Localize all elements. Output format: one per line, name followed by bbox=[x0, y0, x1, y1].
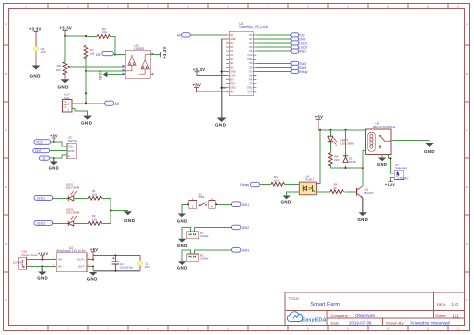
wire (common to GND) bbox=[111, 210, 128, 212]
svg-text:220: 220 bbox=[92, 217, 97, 221]
power flag +5V (relay section) bbox=[315, 115, 323, 120]
wire (S2 pin to SW2 port) bbox=[195, 227, 232, 231]
wire (U1 D6) bbox=[256, 66, 291, 68]
svg-text:Soil: Soil bbox=[64, 96, 69, 100]
net port SW3 bbox=[232, 248, 250, 253]
net label DHT (U1) bbox=[291, 37, 306, 42]
resistor R2 220 bbox=[88, 214, 101, 225]
wire (D8 oval stub) bbox=[114, 54, 115, 56]
resistor R7 10k (vertical) bbox=[84, 45, 95, 58]
svg-text:120: 120 bbox=[274, 179, 279, 183]
node (LED common) bbox=[110, 210, 112, 212]
svg-text:Solenoid: Solenoid bbox=[395, 166, 407, 170]
wire (LED1 to R1) bbox=[74, 197, 89, 199]
net port LED2 bbox=[34, 220, 53, 225]
ground (U2, rotated left) bbox=[98, 71, 108, 80]
svg-text:Power Input: Power Input bbox=[22, 253, 38, 257]
svg-text:3.3V: 3.3V bbox=[230, 74, 235, 77]
svg-text:1/1: 1/1 bbox=[453, 313, 460, 318]
svg-text:GND: GND bbox=[177, 265, 188, 270]
svg-text:104: 104 bbox=[145, 265, 150, 269]
wire (U1 D3) bbox=[256, 46, 291, 48]
wire (LED3 to R8) bbox=[329, 142, 331, 153]
load U7 Solenoid bbox=[394, 163, 409, 180]
svg-text:12VDC: 12VDC bbox=[398, 176, 409, 180]
svg-text:C: C bbox=[466, 128, 468, 132]
node (gnd tap) bbox=[41, 265, 43, 267]
frame ticks bottom bbox=[48, 326, 448, 331]
svg-text:OUT-: OUT- bbox=[78, 265, 85, 269]
svg-text:DHT: DHT bbox=[35, 149, 42, 153]
wire (U1 D0) bbox=[256, 34, 291, 36]
diode D1 4148 (vertical) bbox=[343, 156, 356, 164]
wire (LED2 to R2) bbox=[74, 222, 89, 224]
svg-text:GND: GND bbox=[177, 243, 188, 248]
svg-text:+5V: +5V bbox=[50, 134, 58, 138]
svg-text:SW1: SW1 bbox=[242, 203, 249, 207]
wire (U16 pin1 to U3 IN+) bbox=[27, 259, 57, 261]
svg-text:OUT+: OUT+ bbox=[77, 258, 85, 262]
svg-text:SC: SC bbox=[230, 58, 234, 61]
svg-text:Drawn By:: Drawn By: bbox=[386, 320, 404, 325]
svg-text:GND: GND bbox=[377, 162, 387, 167]
svg-text:+3.3V: +3.3V bbox=[162, 46, 167, 59]
wire (relay coil- to Q1 collector) bbox=[363, 150, 366, 168]
svg-text:A: A bbox=[466, 22, 468, 26]
svg-text:LM393: LM393 bbox=[134, 47, 144, 51]
svg-text:RELAYSONGLE: RELAYSONGLE bbox=[373, 125, 395, 129]
wire (+5V to U1 Vin) bbox=[197, 88, 227, 92]
node (gnd bus pin14) bbox=[221, 87, 223, 89]
svg-text:3.3V: 3.3V bbox=[247, 54, 252, 57]
wire (U17 pin2 to A0) bbox=[72, 102, 105, 104]
svg-text:RST: RST bbox=[230, 83, 235, 86]
relay U6 RELAYSONGLE bbox=[366, 122, 396, 155]
svg-text:GND: GND bbox=[247, 58, 253, 61]
power flag +5V (U3) bbox=[90, 247, 98, 252]
wire (R5 bottom to GND) bbox=[64, 74, 66, 79]
wire (U4 pin2 to GND) bbox=[287, 192, 300, 196]
svg-text:1k: 1k bbox=[334, 186, 338, 190]
node (+12V tap) bbox=[41, 259, 43, 261]
svg-text:+3.3V: +3.3V bbox=[193, 67, 206, 72]
power flag +3.3V (C9 branch) bbox=[29, 27, 42, 32]
svg-text:A0: A0 bbox=[115, 102, 119, 106]
wire (GND pin10 stub) bbox=[222, 71, 226, 73]
power flag +3.3V (comparator section) bbox=[60, 26, 73, 31]
net port DHT bbox=[33, 148, 50, 153]
svg-text:E: E bbox=[466, 242, 468, 246]
node (D1 bottom) bbox=[345, 167, 347, 169]
node (A0 row) bbox=[85, 102, 87, 104]
ground (relay contact) bbox=[424, 143, 435, 154]
wire (+5V to OUT+ and rail) bbox=[93, 252, 140, 262]
wire (U4 pin4 to +5V rail) bbox=[316, 130, 320, 184]
svg-text:+5V: +5V bbox=[90, 247, 98, 252]
node (C2 top) bbox=[114, 254, 116, 256]
wire (gnd rail bottom) bbox=[93, 266, 140, 270]
switch S2 CHSW bbox=[187, 231, 209, 239]
node (R5 wiper) bbox=[68, 66, 70, 68]
wire (power, +3.3V to C9) bbox=[35, 32, 37, 47]
svg-text:GND: GND bbox=[281, 199, 292, 204]
svg-text:+5V: +5V bbox=[315, 115, 323, 120]
node (gnd bus pin10) bbox=[221, 70, 223, 72]
svg-text:Vin: Vin bbox=[230, 91, 234, 94]
svg-text:VCC: VCC bbox=[36, 141, 43, 145]
ground (S2) bbox=[177, 239, 188, 248]
title block bbox=[285, 292, 465, 325]
svg-text:10: 10 bbox=[386, 4, 390, 8]
ground (U1) bbox=[215, 118, 227, 128]
ground (S1) bbox=[177, 214, 188, 224]
wire (+12V stub) bbox=[41, 256, 43, 260]
net port SW2 bbox=[232, 225, 250, 230]
svg-text:12VDC: 12VDC bbox=[13, 260, 24, 264]
wire (relay common to GND) bbox=[381, 155, 383, 158]
wire (R7 node to U2 in-) bbox=[86, 70, 125, 72]
svg-text:PC817: PC817 bbox=[305, 178, 315, 182]
wire (U4 pin3 to R4) bbox=[316, 191, 330, 193]
svg-text:TITLE:: TITLE: bbox=[289, 297, 300, 301]
wire (C1 branch) bbox=[139, 255, 141, 270]
wire (U1 D2) bbox=[256, 42, 291, 44]
wire (R2 to common) bbox=[102, 222, 111, 224]
net label SW2 (U1) bbox=[291, 61, 307, 66]
wire (R6 lead) bbox=[86, 36, 97, 38]
optocoupler U4 PC817 bbox=[299, 174, 316, 194]
wire (S3 pin to SW3 port) bbox=[195, 250, 232, 254]
pin names U1 right bbox=[247, 34, 253, 94]
ground (LEDs) bbox=[124, 211, 136, 223]
wire (OUT+ stub) bbox=[87, 259, 93, 261]
net label A0 (U1) bbox=[177, 33, 191, 38]
net label D8 bbox=[96, 51, 113, 56]
svg-text:2019-07-08: 2019-07-08 bbox=[349, 320, 372, 325]
svg-text:EN: EN bbox=[230, 79, 234, 82]
svg-text:D: D bbox=[5, 185, 7, 189]
wire (Q1 emitter to GND) bbox=[362, 198, 364, 212]
svg-text:LED1: LED1 bbox=[37, 197, 46, 201]
net port LED1 bbox=[34, 195, 53, 200]
svg-text:BC337: BC337 bbox=[364, 191, 374, 195]
ground (DHT11) bbox=[49, 162, 59, 171]
svg-text:GND: GND bbox=[357, 217, 368, 222]
svg-text:+3.3V: +3.3V bbox=[60, 26, 73, 31]
svg-text:A0: A0 bbox=[177, 33, 181, 37]
svg-text:VCC: VCC bbox=[68, 144, 74, 148]
net port Relay bbox=[240, 182, 259, 187]
svg-text:DHT11: DHT11 bbox=[68, 139, 78, 143]
wire (S2 pin to GND) bbox=[182, 227, 190, 238]
transistor Q1 BC337 bbox=[357, 186, 374, 198]
svg-text:LED-3MM: LED-3MM bbox=[66, 211, 80, 215]
svg-text:StepDown 12V to 5V: StepDown 12V to 5V bbox=[56, 249, 86, 253]
wire (U1 D1) bbox=[256, 38, 291, 40]
svg-text:3.3V: 3.3V bbox=[247, 91, 252, 94]
frame ticks left bbox=[4, 45, 9, 272]
wire (GND to U2 pin) bbox=[107, 74, 125, 76]
svg-text:G: G bbox=[68, 154, 70, 158]
net label SW3 (U1) bbox=[291, 65, 307, 70]
svg-text:SK: SK bbox=[230, 66, 234, 69]
svg-text:GND: GND bbox=[177, 218, 188, 223]
pins U1 left stubs bbox=[226, 35, 229, 92]
power flag +5V (DHT11) bbox=[50, 134, 58, 138]
svg-text:GND: GND bbox=[230, 38, 236, 41]
frame ticks top bbox=[48, 4, 448, 9]
node (OUT- junction) bbox=[92, 265, 94, 267]
net label Relay (U1) bbox=[291, 69, 308, 74]
node (S1 left pin) bbox=[187, 203, 189, 205]
wire (DHT to U5) bbox=[50, 150, 67, 152]
resistor R5 10k (vertical) bbox=[56, 62, 67, 75]
net label IO0 bbox=[291, 33, 305, 38]
wire (R5 top lead) bbox=[64, 36, 66, 62]
wire (relay NO contact to GND right) bbox=[391, 140, 430, 142]
svg-text:10: 10 bbox=[386, 327, 390, 331]
svg-text:SW1: SW1 bbox=[299, 50, 306, 54]
wire (R5 wiper to U2 in+) bbox=[69, 66, 126, 68]
wire (R3 to U4 pin1) bbox=[284, 183, 299, 185]
svg-text:SW2: SW2 bbox=[242, 226, 249, 230]
wire (U16 gnd stub) bbox=[41, 266, 43, 271]
wire (+3.3V stub down) bbox=[64, 31, 66, 37]
wire (A0 to U1) bbox=[190, 34, 226, 36]
node (D8 net) bbox=[114, 54, 116, 56]
svg-text:10k: 10k bbox=[56, 68, 61, 72]
power flag +3.3V (U1) bbox=[193, 67, 206, 72]
svg-text:Smart Farm: Smart Farm bbox=[311, 302, 341, 308]
wire (R4 to Q1 base) bbox=[344, 191, 355, 193]
svg-text:D8: D8 bbox=[96, 53, 100, 57]
net port VCC bbox=[34, 140, 51, 145]
EasyEDA logo bbox=[287, 312, 326, 324]
wire (LED1 port to diode) bbox=[53, 197, 68, 199]
ground (U16) bbox=[37, 272, 48, 281]
node (R7/U2 wire) bbox=[85, 70, 87, 72]
wire (relay NC to solenoid) bbox=[388, 155, 394, 174]
svg-text:12: 12 bbox=[456, 327, 460, 331]
ground (U3) bbox=[87, 272, 98, 281]
wire (+3.3V to U1 pin 3.3V) bbox=[197, 72, 226, 76]
svg-text:LED-3MM: LED-3MM bbox=[66, 186, 80, 190]
svg-text:DATA: DATA bbox=[68, 149, 75, 153]
wire (U1 D4) bbox=[256, 50, 291, 52]
wire (S1 to GND) bbox=[182, 204, 189, 213]
svg-text:GND: GND bbox=[87, 276, 98, 281]
wire (U1 D5) bbox=[256, 62, 291, 64]
wire (R8 bottom to node line) bbox=[330, 130, 362, 168]
wire (G to GND) bbox=[53, 158, 55, 161]
node (rail pc817) bbox=[319, 129, 321, 131]
regulator U3 StepDown 12V to 5V bbox=[53, 246, 90, 272]
wire (U1 D7) bbox=[256, 71, 291, 73]
svg-text:Relay: Relay bbox=[240, 183, 249, 187]
wire (R6 right to D8 node to U2 pin1) bbox=[110, 37, 125, 55]
svg-text:VU: VU bbox=[230, 42, 234, 45]
svg-text:12: 12 bbox=[456, 4, 460, 8]
svg-text:C: C bbox=[5, 128, 7, 132]
wire (S1 to SW1 port) bbox=[215, 203, 231, 205]
wire (+5V rail to relay) bbox=[318, 129, 365, 131]
svg-text:B: B bbox=[5, 72, 7, 76]
svg-text:1.0: 1.0 bbox=[452, 302, 459, 307]
svg-text:11: 11 bbox=[427, 327, 430, 331]
svg-text:4148: 4148 bbox=[349, 160, 356, 164]
wire (VCC to U5) bbox=[51, 142, 68, 146]
wire (+5V stub) bbox=[53, 138, 55, 142]
svg-text:10k: 10k bbox=[102, 30, 107, 34]
svg-text:+12V: +12V bbox=[38, 252, 48, 256]
frame ticks right bbox=[465, 45, 470, 272]
net port G bbox=[39, 156, 49, 161]
svg-text:B: B bbox=[466, 72, 468, 76]
net label LED2 (U1) bbox=[291, 45, 308, 50]
node (rail led3) bbox=[329, 129, 331, 131]
net port SW1 bbox=[232, 202, 250, 207]
svg-text:EasyEDA: EasyEDA bbox=[302, 317, 327, 323]
node (rail left) bbox=[64, 35, 66, 37]
ground (R5) bbox=[58, 79, 70, 89]
svg-text:GND: GND bbox=[230, 87, 236, 90]
switch S1 SW-4 bbox=[189, 192, 216, 208]
wire (GND pin14 stub) bbox=[222, 87, 226, 89]
svg-text:CHSW: CHSW bbox=[200, 234, 209, 238]
svg-text:SW1: SW1 bbox=[199, 195, 206, 199]
wire (S3 pin to GND) bbox=[182, 250, 190, 261]
svg-text:Company:: Company: bbox=[331, 313, 349, 318]
svg-text:Observies: Observies bbox=[355, 313, 376, 318]
power flag +12V bbox=[38, 252, 48, 256]
wire (Relay port to R3) bbox=[260, 183, 271, 185]
svg-text:GND: GND bbox=[124, 218, 136, 223]
svg-text:CHSW: CHSW bbox=[200, 257, 209, 261]
mcu U1 NodeMcu_V3_LoLin bbox=[229, 22, 268, 96]
svg-text:SW3: SW3 bbox=[242, 249, 249, 253]
wire (G to U5) bbox=[50, 155, 67, 158]
LED LED2 LED-3MM bbox=[66, 207, 80, 226]
svg-text:Date:: Date: bbox=[331, 320, 341, 325]
wire (U1 GND grey bus) bbox=[222, 39, 226, 118]
resistor R3 120 bbox=[271, 175, 284, 186]
node (VCC junction) bbox=[53, 141, 55, 143]
node (G junction) bbox=[53, 157, 55, 159]
pins U1 right stubs bbox=[253, 35, 256, 92]
LED LED1 LED-3MM bbox=[66, 182, 80, 201]
svg-text:GND: GND bbox=[49, 166, 59, 171]
node (rail R7) bbox=[85, 35, 87, 37]
wire (R1 to common) bbox=[102, 198, 111, 223]
svg-text:100uf/16v: 100uf/16v bbox=[120, 266, 134, 270]
net label SW1 (U1) bbox=[291, 49, 307, 54]
svg-text:GND: GND bbox=[81, 121, 93, 126]
node (mid vertical) bbox=[85, 92, 87, 94]
svg-text:GND: GND bbox=[230, 70, 236, 73]
wire (LED2 port to diode) bbox=[53, 222, 68, 224]
svg-text:LED2: LED2 bbox=[37, 222, 46, 226]
svg-text:Relay: Relay bbox=[299, 70, 308, 74]
svg-text:IN+: IN+ bbox=[58, 258, 63, 262]
ground (relay) bbox=[377, 158, 387, 168]
ground (U17) bbox=[81, 116, 93, 126]
svg-text:RX: RX bbox=[249, 79, 253, 82]
sensor U17 Soil bbox=[63, 93, 73, 112]
wire (R7 bottom vertical to A0 row) bbox=[85, 57, 87, 103]
ground (Q1) bbox=[357, 212, 368, 222]
wire (U16 pin2 to U3 IN-) bbox=[27, 265, 57, 267]
svg-text:Kriangkrai Intarangsil: Kriangkrai Intarangsil bbox=[411, 320, 450, 325]
svg-text:GND: GND bbox=[58, 85, 70, 90]
svg-text:Sheet:: Sheet: bbox=[435, 313, 447, 318]
svg-text:220: 220 bbox=[334, 158, 339, 162]
resistor R4 1k bbox=[330, 183, 343, 194]
op-amp U2 LM393 bbox=[122, 44, 153, 78]
svg-text:E: E bbox=[5, 242, 7, 246]
wire (solenoid to +12V) bbox=[390, 178, 394, 182]
resistor R8 220 (vertical) bbox=[328, 153, 339, 166]
capacitor C1 104 bbox=[137, 261, 150, 269]
node (S1 right pin) bbox=[216, 203, 218, 205]
resistor R1 220 bbox=[88, 189, 101, 200]
svg-text:GND: GND bbox=[247, 87, 253, 90]
node (rail d1) bbox=[345, 129, 347, 131]
power flag +12V (solenoid) bbox=[385, 182, 395, 187]
wire (+5V stub down) bbox=[317, 120, 319, 130]
wire (U2 out to +3.3V) bbox=[150, 54, 160, 56]
svg-text:F: F bbox=[5, 298, 7, 302]
capacitor C2 100uf/16v bbox=[112, 255, 134, 270]
svg-text:REV:: REV: bbox=[437, 302, 446, 307]
wire (Q1 collector up) bbox=[362, 168, 364, 186]
connector U16 Power Input bbox=[13, 250, 38, 270]
svg-text:104: 104 bbox=[41, 50, 46, 54]
net label LED1 (U1) bbox=[291, 41, 308, 46]
wire (rail to LED3) bbox=[329, 130, 331, 136]
svg-text:A: A bbox=[5, 22, 7, 26]
svg-text:LED-3MM: LED-3MM bbox=[340, 141, 354, 145]
svg-text:10k: 10k bbox=[90, 51, 95, 55]
svg-text:+5V: +5V bbox=[193, 83, 201, 88]
power flag +5V (U1) bbox=[193, 83, 201, 88]
wire (OUT- stub) bbox=[87, 265, 93, 267]
wire (rail to R7 top) bbox=[65, 35, 86, 37]
resistor R6 10k (horizontal) bbox=[97, 27, 110, 39]
ground (S3) bbox=[177, 261, 188, 270]
svg-text:IN-: IN- bbox=[58, 265, 62, 269]
net label A0 (soil) bbox=[105, 101, 119, 106]
wire (U17 pin1 to GND) bbox=[72, 109, 88, 116]
svg-text:TX: TX bbox=[249, 83, 253, 86]
power flag +3.3V (U2, rotated) bbox=[161, 46, 167, 59]
svg-text:F: F bbox=[466, 298, 468, 302]
pin names U1 left bbox=[230, 34, 236, 94]
wire (C9 to GND) bbox=[35, 52, 37, 66]
svg-text:NodeMcu_V3_LoLin: NodeMcu_V3_LoLin bbox=[239, 25, 268, 29]
svg-text:+12V: +12V bbox=[385, 183, 395, 187]
node (Q1 collector line) bbox=[362, 167, 364, 169]
svg-text:GND: GND bbox=[30, 74, 42, 79]
capacitor C9 104 bbox=[33, 46, 45, 54]
svg-text:GND: GND bbox=[424, 149, 435, 154]
switch S3 CHSW bbox=[187, 253, 209, 261]
svg-text:GND: GND bbox=[215, 123, 227, 128]
svg-text:11: 11 bbox=[427, 4, 430, 8]
sensor U5 DHT11 bbox=[67, 136, 77, 159]
svg-text:GND: GND bbox=[37, 276, 48, 281]
node (+5V junction) bbox=[92, 259, 94, 261]
svg-text:GND: GND bbox=[98, 71, 103, 80]
